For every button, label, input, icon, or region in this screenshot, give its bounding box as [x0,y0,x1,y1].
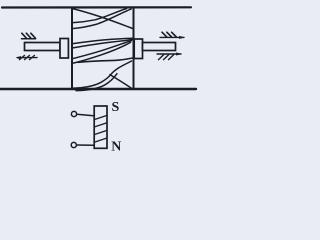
svg-text:S: S [112,100,120,115]
svg-text:N: N [111,139,121,154]
